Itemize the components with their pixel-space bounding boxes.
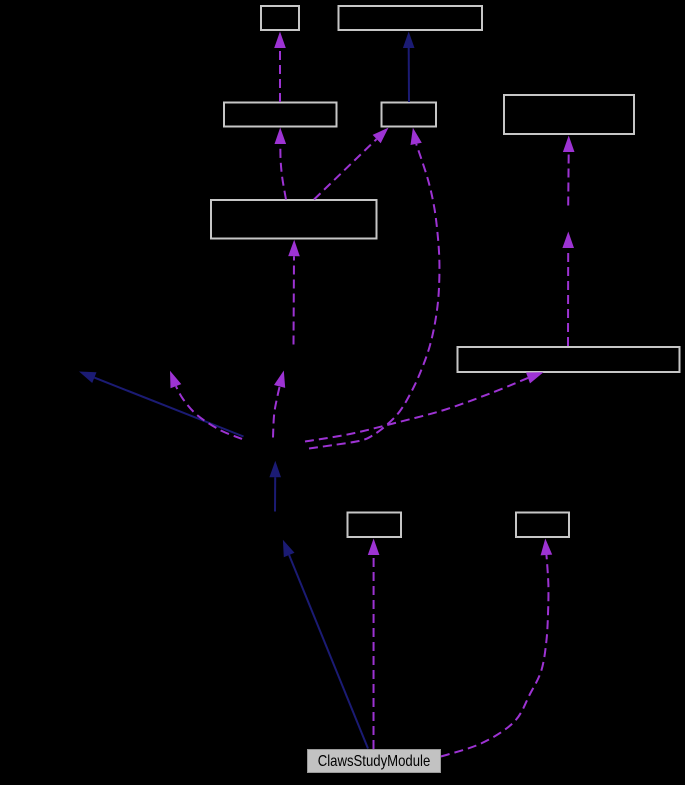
svg-text:ClawsStudyModule: ClawsStudyModule [318, 753, 431, 770]
